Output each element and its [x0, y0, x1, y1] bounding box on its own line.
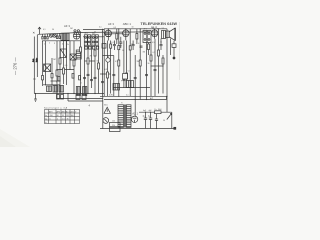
resistor R25 — [51, 74, 53, 78]
wire — [100, 73, 111, 75]
svg-text:300: 300 — [71, 115, 74, 117]
wire — [154, 39, 156, 97]
resistor R27 — [72, 74, 74, 79]
motor M1 — [103, 118, 109, 124]
table header text — [45, 110, 77, 124]
coil L12 — [59, 86, 64, 93]
svg-text:0,7: 0,7 — [128, 71, 131, 73]
svg-text:0,5: 0,5 — [65, 65, 68, 67]
svg-text:Ug: Ug — [45, 118, 47, 120]
capacitor C17 — [85, 46, 87, 49]
choke L2 — [155, 111, 162, 114]
mains warning triangle — [104, 107, 110, 113]
capacitor C7 — [145, 75, 148, 76]
resistor R8 — [98, 63, 100, 69]
HT rail wire — [104, 99, 167, 101]
wire — [171, 112, 173, 128]
wire — [110, 41, 112, 94]
transformer TR1 secondary — [126, 105, 131, 128]
svg-text:AZ 1: AZ 1 — [132, 112, 138, 116]
grid rail wire — [104, 33, 124, 35]
wire — [80, 32, 82, 94]
resistor R9 — [107, 72, 109, 78]
svg-text:1,5: 1,5 — [62, 118, 65, 120]
potentiometer P2 — [57, 95, 64, 100]
band switch S1 — [42, 33, 80, 40]
svg-text:0,1: 0,1 — [153, 52, 156, 54]
capacitor C2 — [90, 80, 93, 81]
svg-text:TELEFUNKEN 643W: TELEFUNKEN 643W — [141, 22, 178, 26]
svg-text:AL4: AL4 — [66, 110, 69, 113]
svg-text:Dr: Dr — [155, 109, 157, 111]
bottom bus wire — [35, 93, 105, 95]
svg-text:10: 10 — [132, 27, 134, 29]
ground — [34, 94, 37, 102]
coil can L9 — [61, 33, 65, 40]
wire — [113, 87, 150, 89]
wire — [126, 41, 128, 88]
socket J1 — [49, 34, 52, 38]
resistor R15 — [162, 58, 164, 64]
svg-text:ZF2: ZF2 — [92, 33, 95, 35]
capacitor C16 — [160, 39, 163, 51]
svg-text:95: 95 — [62, 115, 64, 117]
loudspeaker LS — [166, 28, 176, 41]
capacitor C6 — [134, 78, 137, 79]
AVC rail wire — [83, 29, 104, 31]
wire — [150, 43, 152, 97]
page right crease — [179, 22, 181, 80]
potentiometer P3 — [76, 95, 86, 100]
svg-text:0,1: 0,1 — [76, 58, 79, 60]
coil L7 — [113, 84, 120, 91]
wire — [51, 58, 53, 86]
svg-text:AL 4: AL 4 — [151, 25, 157, 29]
tube V2 AF3 — [105, 29, 112, 41]
svg-text:30: 30 — [148, 63, 150, 65]
resistor R10 — [118, 60, 120, 66]
svg-text:AF3: AF3 — [49, 110, 52, 113]
capacitor C14 — [132, 41, 135, 51]
svg-text:2: 2 — [49, 43, 50, 45]
resistor R21 — [110, 44, 112, 48]
wire — [69, 41, 71, 70]
coil L4 — [53, 86, 58, 93]
capacitor C22 — [87, 74, 90, 75]
capacitor C9 electrolytic — [144, 112, 147, 128]
coil L11 — [44, 64, 51, 72]
title TELEFUNKEN 643W — [141, 22, 178, 30]
svg-text:— 276 —: — 276 — — [13, 56, 18, 75]
capacitor C20 — [96, 46, 98, 49]
antenna A1 — [38, 27, 41, 34]
wire — [134, 55, 136, 100]
screen rail wire — [83, 36, 104, 38]
svg-text:200: 200 — [50, 115, 53, 117]
resistor R4 — [73, 60, 75, 66]
svg-text:0,3: 0,3 — [105, 69, 108, 71]
transformer TR1 primary — [118, 105, 124, 128]
svg-text:4μ: 4μ — [148, 116, 150, 118]
tube label V1 — [64, 24, 70, 28]
rectifier tube V5 AZ1 — [131, 100, 137, 123]
IF transformer T2 — [92, 35, 98, 45]
capacitor C4 — [112, 75, 115, 76]
svg-text:50: 50 — [97, 61, 99, 63]
tube label V4 — [151, 25, 157, 29]
output transformer T4 — [162, 31, 166, 39]
coil L3 — [47, 86, 52, 92]
wire — [87, 45, 89, 93]
svg-text:36: 36 — [67, 118, 69, 120]
value label group power — [89, 95, 166, 128]
wire — [33, 37, 35, 94]
coil L1 — [70, 54, 76, 60]
capacitor C10 electrolytic — [149, 112, 152, 128]
svg-text:6: 6 — [56, 82, 57, 84]
svg-text:235: 235 — [66, 115, 69, 117]
tube V3 ABC1 — [123, 29, 130, 41]
capacitor C23 — [94, 77, 97, 78]
coil L6 — [83, 87, 87, 96]
svg-text:4μ: 4μ — [143, 116, 145, 118]
page number 276 — [13, 56, 18, 75]
wire — [129, 29, 131, 97]
cross mark — [33, 32, 35, 34]
tube label V2 — [108, 22, 114, 26]
wire — [56, 94, 58, 99]
field coil L14 — [172, 41, 176, 48]
wire — [107, 41, 109, 97]
coupling box C21 — [102, 44, 106, 49]
wire — [146, 43, 148, 100]
svg-text:50: 50 — [163, 120, 165, 122]
svg-text:0,1: 0,1 — [99, 27, 102, 29]
svg-text:AZ1: AZ1 — [71, 110, 74, 113]
wire — [166, 29, 168, 112]
terminal dot — [174, 127, 176, 129]
capacitor C5 — [122, 80, 125, 81]
pickup P1 — [173, 47, 175, 59]
svg-text:2n: 2n — [131, 44, 133, 46]
wire — [57, 69, 74, 71]
wire — [113, 56, 115, 97]
wire — [63, 41, 65, 84]
page curl shadow — [0, 129, 30, 147]
resistor R11 — [126, 73, 128, 79]
resistor R5 — [80, 47, 82, 52]
wire — [73, 41, 75, 94]
resistor R26 — [58, 77, 60, 81]
svg-text:ZF3: ZF3 — [144, 29, 147, 31]
svg-text:4: 4 — [62, 44, 63, 46]
wire — [166, 96, 168, 99]
wire — [103, 55, 114, 57]
svg-text:Netz: Netz — [104, 104, 108, 107]
resistor R19 — [136, 29, 138, 44]
svg-text:7n: 7n — [160, 42, 162, 44]
IF transformer T3 — [143, 31, 151, 43]
capacitor C8 — [154, 70, 157, 71]
svg-text:0,1: 0,1 — [138, 43, 141, 45]
svg-text:AF3: AF3 — [57, 110, 60, 113]
coil can L10 — [65, 33, 69, 40]
filter rail wire — [139, 111, 172, 113]
wire — [43, 84, 60, 86]
capacitor C15 — [140, 46, 143, 47]
wire — [158, 29, 160, 94]
resistor R2 — [59, 58, 61, 64]
value label L2 — [155, 109, 157, 111]
arrow mark — [167, 114, 172, 120]
wire — [36, 34, 38, 77]
tuning capacitor CV1 — [60, 49, 66, 58]
tube label V5 — [132, 112, 138, 116]
svg-text:1: 1 — [44, 44, 45, 46]
IF transformer T1 — [84, 35, 90, 45]
wire — [123, 41, 125, 88]
mains wire b — [68, 100, 103, 102]
resistor R22 — [118, 46, 120, 50]
tube label V3 — [123, 22, 132, 26]
capacitor C13 — [119, 37, 122, 48]
value label group middle — [53, 52, 155, 85]
svg-text:6: 6 — [50, 118, 51, 120]
top bus wire — [38, 32, 150, 34]
capacitor C1 — [83, 78, 86, 79]
resistor R18 — [116, 29, 118, 44]
net label Erde — [36, 58, 39, 62]
svg-text:Spannungen u. mA: Spannungen u. mA — [44, 106, 68, 109]
svg-text:ABC 1: ABC 1 — [123, 22, 132, 26]
IF ladder L13 — [76, 50, 81, 59]
wire — [56, 41, 58, 94]
resistor R14 — [158, 50, 160, 56]
wire — [45, 41, 47, 85]
resistor R23 — [129, 46, 131, 50]
svg-text:2: 2 — [57, 118, 58, 120]
wire — [51, 80, 61, 82]
wire — [162, 55, 164, 94]
wire — [170, 39, 172, 56]
mains wire a — [57, 97, 103, 99]
wire — [65, 41, 67, 54]
resistor R24 — [42, 76, 44, 80]
wire tick — [33, 78, 36, 80]
svg-text:4: 4 — [81, 83, 82, 85]
power box left wire — [102, 96, 104, 128]
tube V1 AF3 — [73, 30, 80, 39]
svg-text:50: 50 — [122, 50, 124, 52]
wire — [42, 41, 44, 86]
svg-text:0,1: 0,1 — [126, 95, 129, 97]
voltage selector SW2 — [110, 123, 121, 132]
wire — [102, 29, 104, 97]
svg-text:0,5: 0,5 — [114, 27, 117, 29]
tube V4 AL4 — [151, 29, 158, 39]
coil L5 — [76, 87, 80, 96]
wire — [59, 41, 61, 94]
table title — [44, 106, 68, 109]
resistor R13 — [150, 55, 152, 61]
upper rail wire — [104, 28, 167, 30]
mains rail wire — [100, 95, 167, 97]
svg-text:0,1: 0,1 — [43, 29, 46, 31]
resistor R7 — [94, 50, 96, 56]
svg-text:90: 90 — [57, 115, 59, 117]
capacitor C11 electrolytic — [155, 114, 158, 129]
wire — [103, 29, 105, 97]
resistor R20 — [148, 43, 150, 56]
transformer TR1 core — [124, 105, 125, 128]
wire — [98, 45, 100, 93]
svg-text:125: 125 — [112, 121, 115, 123]
svg-text:0,1: 0,1 — [115, 61, 118, 63]
svg-text:0,1: 0,1 — [111, 42, 114, 44]
net label Ant — [32, 58, 35, 62]
capacitor C3 — [101, 82, 104, 83]
wire — [66, 41, 68, 86]
measurement table — [45, 110, 80, 124]
svg-text:220: 220 — [112, 125, 115, 127]
diode D1 — [106, 56, 110, 62]
socket J2 — [53, 34, 56, 38]
wire — [118, 29, 120, 97]
resistor R28 — [79, 76, 81, 80]
resistor R12 — [139, 60, 141, 66]
value label C9 — [143, 116, 145, 118]
svg-text:ZF1: ZF1 — [85, 33, 88, 35]
svg-text:50: 50 — [52, 29, 54, 31]
wire — [94, 45, 96, 93]
value label C10 — [148, 116, 150, 118]
wire — [91, 45, 93, 88]
wire — [139, 29, 141, 100]
resistor R3 — [63, 68, 65, 74]
value label group top — [43, 27, 162, 54]
coil L8 — [126, 81, 134, 88]
wire — [151, 65, 164, 67]
capacitor C18 — [89, 46, 91, 49]
wire — [85, 60, 96, 62]
wire — [67, 94, 69, 102]
capacitor C19 — [92, 46, 94, 49]
wire — [84, 45, 86, 93]
resistor R1 — [56, 70, 58, 76]
bottom power wire — [100, 128, 174, 130]
resistor R16 — [123, 74, 128, 80]
junction dots — [35, 28, 168, 129]
svg-text:AZ1: AZ1 — [150, 97, 153, 100]
svg-text:3: 3 — [54, 43, 55, 45]
svg-text:0,5: 0,5 — [152, 42, 155, 44]
svg-text:AF 3: AF 3 — [108, 22, 114, 26]
resistor R6 — [87, 58, 89, 64]
capacitor C12 — [113, 41, 116, 51]
